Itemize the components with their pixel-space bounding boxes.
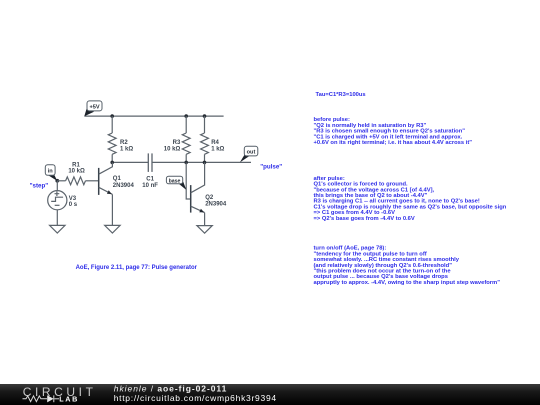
wire R4 to mid wire xyxy=(204,154,206,162)
node flag in xyxy=(45,165,57,181)
annotation turn on/off block xyxy=(314,246,501,286)
wire R1 to Q1 base xyxy=(86,180,99,182)
resistor R4 xyxy=(201,133,209,154)
svg-text:in: in xyxy=(48,169,54,175)
value label Q1 2N3904 xyxy=(113,176,135,189)
wire R3 node to Q2 base xyxy=(186,162,191,199)
transistor Q2 xyxy=(191,162,205,212)
value label R3 10 kOhm xyxy=(164,140,181,152)
resistor R1 xyxy=(66,177,86,185)
resistor R2 xyxy=(108,133,116,154)
value label C1 10 nF xyxy=(142,177,158,189)
node flag base xyxy=(166,176,186,190)
value label R1 10 kOhm xyxy=(68,162,85,174)
wire R2 to mid node xyxy=(111,154,113,162)
junction mid-R4/Q2 collector xyxy=(203,161,207,165)
footer logo resistor-diode glyph xyxy=(23,395,60,402)
wire Q2 emitter to ground xyxy=(204,213,206,226)
wire mid left segment node to C1 xyxy=(112,161,148,163)
junction rail-R3 xyxy=(184,114,188,118)
power flag +5V xyxy=(84,101,102,116)
junction mid-R2/Q1 collector xyxy=(110,161,114,165)
svg-text:=> Q2's base goes from -4.4V t: => Q2's base goes from -4.4V to 0.6V xyxy=(314,216,415,222)
wire R3 to mid wire xyxy=(185,154,187,162)
wire rail to R4 xyxy=(204,116,206,133)
svg-text:2N3904: 2N3904 xyxy=(113,183,135,189)
wire rail to R2 xyxy=(111,116,113,133)
svg-text:10 kΩ: 10 kΩ xyxy=(164,147,181,153)
annotation before pulse block xyxy=(314,117,473,146)
svg-text:R4: R4 xyxy=(211,140,219,146)
svg-text:10 nF: 10 nF xyxy=(142,183,158,189)
ground V3 xyxy=(50,225,65,233)
wire Q1 emitter to ground xyxy=(111,194,113,225)
svg-text:"pulse": "pulse" xyxy=(260,163,282,170)
svg-text:AoE, Figure 2.11, page 77: Pul: AoE, Figure 2.11, page 77: Pulse generat… xyxy=(76,265,198,271)
footer bar xyxy=(0,384,540,405)
voltage source V3 step xyxy=(48,191,67,210)
svg-text:Tau=C1*R3=100us: Tau=C1*R3=100us xyxy=(316,92,366,98)
capacitor C1 xyxy=(148,153,152,172)
junction rail-R4 xyxy=(203,114,207,118)
junction rail-R2 xyxy=(110,114,114,118)
svg-text:hkienle / aoe-fig-02-011: hkienle / aoe-fig-02-011 xyxy=(114,383,228,393)
wire V3 to in node xyxy=(56,181,58,191)
value label R4 1 kOhm xyxy=(211,140,224,152)
svg-text:1 kΩ: 1 kΩ xyxy=(120,147,133,153)
svg-text:http://circuitlab.com/cwmp6hk3: http://circuitlab.com/cwmp6hk3r9394 xyxy=(114,393,277,403)
svg-text:out: out xyxy=(247,149,256,155)
svg-text:2N3904: 2N3904 xyxy=(205,201,227,207)
node flag out xyxy=(240,146,258,162)
svg-text:Q2: Q2 xyxy=(205,195,214,201)
svg-text:"step": "step" xyxy=(30,183,49,190)
svg-text:+5V: +5V xyxy=(89,104,99,110)
svg-text:appruptly to approx. -4.4V, ow: appruptly to approx. -4.4V, owing to the… xyxy=(314,280,501,286)
svg-text:+0.6V on its right terminal; i: +0.6V on its right terminal; i.e. it has… xyxy=(314,140,473,146)
wire V3 to ground xyxy=(56,210,58,226)
svg-text:LAB: LAB xyxy=(59,395,79,404)
svg-text:R3: R3 xyxy=(173,140,181,146)
value label Q2 2N3904 xyxy=(205,195,227,208)
value label V3 0 s xyxy=(69,196,78,208)
svg-text:R1: R1 xyxy=(72,162,80,168)
svg-text:base: base xyxy=(169,178,181,184)
annotation after pulse block xyxy=(314,176,507,222)
junction mid-R3 xyxy=(184,161,188,165)
wire rail to R3 xyxy=(185,116,187,133)
svg-text:0 s: 0 s xyxy=(69,202,78,208)
svg-text:10 kΩ: 10 kΩ xyxy=(68,169,85,175)
junction node in xyxy=(55,179,59,183)
svg-text:C1: C1 xyxy=(146,177,154,183)
wire mid right segment C1 to out xyxy=(152,161,251,163)
svg-text:Q1: Q1 xyxy=(113,176,122,182)
svg-text:V3: V3 xyxy=(69,196,77,202)
resistor R3 xyxy=(182,133,190,154)
value label R2 1 kOhm xyxy=(120,140,133,152)
svg-text:1 kΩ: 1 kΩ xyxy=(211,147,224,153)
ground Q1 emitter xyxy=(105,225,120,233)
ground Q2 emitter xyxy=(197,226,212,234)
svg-text:R2: R2 xyxy=(120,140,128,146)
wire in node to R1 xyxy=(57,180,65,182)
transistor Q1 xyxy=(99,162,113,195)
wire top rail +5V net xyxy=(84,115,223,117)
